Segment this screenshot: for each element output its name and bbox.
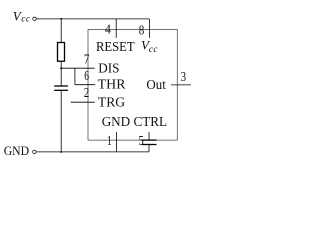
svg-text:5: 5 <box>139 134 144 149</box>
pin 8 stub (Vcc) <box>148 19 150 38</box>
wire DIS-THR tie vertical <box>74 68 76 85</box>
svg-text:8: 8 <box>139 23 145 38</box>
junction dot (Vcc / resistor) <box>60 18 62 20</box>
svg-text:4: 4 <box>105 23 111 38</box>
IC box U1 (555 timer) <box>88 30 177 141</box>
junction dot (DIS node) <box>60 67 62 69</box>
svg-text:6: 6 <box>84 69 89 84</box>
wire TRG to pin 2 <box>71 101 95 103</box>
svg-text:RESET: RESET <box>96 39 135 54</box>
wire DIS node to pin 7 <box>61 67 94 69</box>
pin 5 stub (CTRL) <box>148 132 150 140</box>
svg-text:cc: cc <box>21 15 31 25</box>
wire THR to pin 6 <box>75 84 95 86</box>
svg-text:1: 1 <box>107 134 112 149</box>
svg-text:3: 3 <box>181 70 187 85</box>
capacitor C1 <box>54 86 68 90</box>
svg-text:7: 7 <box>84 52 90 67</box>
wire Vcc rail <box>36 18 149 20</box>
pin 3 stub (Out) <box>171 84 191 86</box>
junction dot (GND / C1) <box>60 151 62 153</box>
svg-text:GND: GND <box>4 143 29 158</box>
terminal Vcc <box>33 17 36 20</box>
terminal GND <box>33 150 36 153</box>
pin 1 stub + wire to GND rail <box>116 132 118 152</box>
wire GND rail <box>36 151 149 153</box>
pin 4 stub (RESET) <box>115 19 117 38</box>
svg-text:Out: Out <box>146 77 166 92</box>
wire C2 bottom to GND rail <box>148 145 150 152</box>
resistor R1 <box>58 43 65 62</box>
label Vcc (inside box, pin 8) <box>141 38 158 55</box>
wire C1 bottom to GND rail <box>60 90 62 152</box>
label Vcc (supply, top left) <box>13 8 31 24</box>
svg-text:DIS: DIS <box>98 61 119 76</box>
svg-text:THR: THR <box>98 77 126 92</box>
svg-text:2: 2 <box>84 86 90 101</box>
svg-text:TRG: TRG <box>98 94 126 109</box>
wire Vcc to resistor top <box>60 19 62 43</box>
capacitor C2 (on CTRL pin) <box>142 140 157 144</box>
svg-text:cc: cc <box>149 45 159 55</box>
wire resistor bottom to DIS node <box>60 61 62 68</box>
wire DIS node to capacitor C1 <box>60 68 62 86</box>
svg-text:GND CTRL: GND CTRL <box>102 114 167 129</box>
